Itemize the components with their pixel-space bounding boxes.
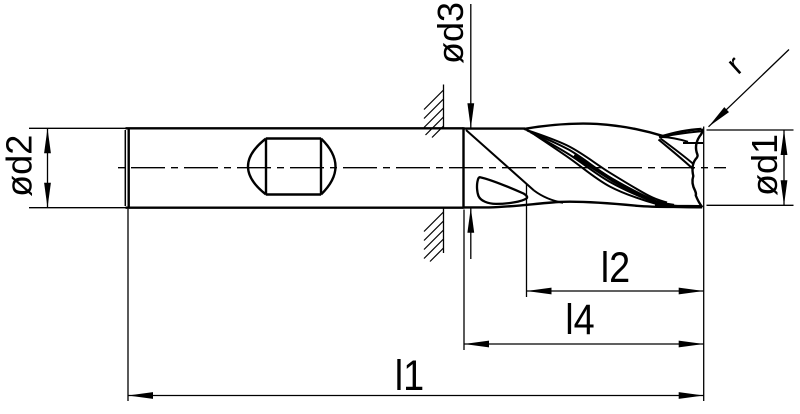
svg-text:ød3: ød3 xyxy=(430,2,471,64)
svg-text:ød2: ød2 xyxy=(0,135,40,197)
svg-text:l2: l2 xyxy=(601,243,630,292)
svg-text:l4: l4 xyxy=(565,295,594,344)
svg-text:l1: l1 xyxy=(395,351,424,400)
svg-text:ød1: ød1 xyxy=(744,134,785,196)
